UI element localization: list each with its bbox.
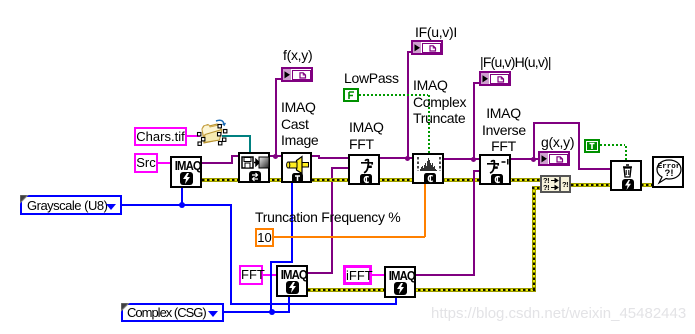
wire: Create3 (iFFT buf) out up to InverseFFT dst input xyxy=(416,274,475,276)
svg-text:?!: ?! xyxy=(665,168,674,179)
boolean constant T xyxy=(584,139,600,153)
string constant iFFT xyxy=(343,265,372,285)
node Merge Errors xyxy=(540,175,571,193)
indicator f(x,y) xyxy=(281,67,313,82)
junction node: truncate-out xyxy=(471,157,476,162)
wire: string Src to IMAQ Create 1 xyxy=(158,162,170,164)
wire xyxy=(424,184,426,237)
wire: image Truncate->InverseFFT->g(x,y) xyxy=(443,158,538,160)
label IMAQ Cast Image xyxy=(281,99,318,149)
wire xyxy=(578,168,611,170)
indicator g(x,y) xyxy=(538,151,570,166)
junction node: fft-out to |F(u,v)| xyxy=(405,156,410,161)
wire: green dotted LowPass to Truncate xyxy=(359,94,429,96)
watermark xyxy=(431,306,686,323)
wire xyxy=(533,122,580,124)
label IMAQ FFT xyxy=(349,119,384,152)
node Simple Error Handler xyxy=(652,156,684,188)
wire: error merge->dispose->handler xyxy=(571,183,653,187)
node IMAQ Cast Image xyxy=(281,152,312,183)
label |F(u,v)H(u,v)| xyxy=(480,54,551,71)
wire xyxy=(473,82,480,84)
node IMAQ Dispose xyxy=(610,160,642,191)
node IMAQ Create (iFFT buf) xyxy=(384,266,416,298)
junction node: grayscale wire xyxy=(179,202,185,208)
wire xyxy=(407,51,412,53)
wire: Create2 (FFT buf) out up to FFT dst input xyxy=(308,272,333,274)
wire xyxy=(291,183,293,262)
wire: string FFT to Create2 xyxy=(262,274,276,276)
string constant Src xyxy=(134,153,158,173)
wire: g(x,y) route up-over to Dispose xyxy=(533,123,535,160)
wire xyxy=(473,170,479,172)
node IMAQ ReadFile xyxy=(238,152,270,183)
enum Grayscale (U8) xyxy=(20,195,122,215)
wire xyxy=(473,170,475,276)
wire xyxy=(270,261,293,263)
wire: Complex enum run xyxy=(224,311,290,313)
junction node: complex wire xyxy=(269,309,275,315)
wire: string iFFT to Create3 xyxy=(371,274,384,276)
string constant Chars.tif xyxy=(134,127,187,146)
wire xyxy=(625,144,627,160)
wire xyxy=(231,156,233,164)
string constant FFT xyxy=(239,265,263,285)
wire xyxy=(578,122,580,169)
label |F(u,v)| xyxy=(415,24,457,41)
wire xyxy=(331,167,348,169)
label IMAQ Inverse FFT xyxy=(482,105,525,155)
wire: image Cast->FFT->Truncate xyxy=(318,157,443,159)
wire: error main run xyxy=(202,178,541,182)
node IMAQ ComplexTruncate xyxy=(412,153,444,184)
junction node: inversefft-out to g(x,y) xyxy=(531,157,536,162)
numeric constant 10 xyxy=(255,228,274,247)
wire xyxy=(532,186,541,190)
node IMAQ Create (FFT buf) xyxy=(276,265,308,297)
wire: error bottom run Create2->Create3->up xyxy=(308,288,536,292)
wire xyxy=(275,78,282,80)
wire: branch up into Create1 bottom xyxy=(181,188,183,205)
label LowPass xyxy=(344,70,399,87)
label Truncation Frequency % xyxy=(255,209,400,226)
wire: image out of Create1 jog xyxy=(202,162,233,164)
wire: branch into Create2 bottom xyxy=(288,297,290,312)
node IMAQ InverseFFT xyxy=(479,154,511,185)
junction node: readfile-out to f(x,y) xyxy=(273,154,278,159)
label f(x,y) xyxy=(283,47,312,64)
node IMAQ FFT xyxy=(348,154,380,185)
indicator |F(u,v)H(u,v)| xyxy=(479,71,511,86)
wire xyxy=(249,135,251,153)
boolean constant F (LowPass) xyxy=(343,88,359,102)
wire: Grayscale bottom run to Create3 type input xyxy=(230,303,397,305)
node IMAQ Create (Src) xyxy=(170,156,202,188)
wire: orange truncation frequency xyxy=(273,236,425,238)
wire: Complex branch up to Cast type input xyxy=(270,261,272,312)
wire: branch up to |F(u,v)H(u,v)| indicator xyxy=(473,82,475,160)
wire: image main run Create1->ReadFile->Cast xyxy=(231,155,320,157)
wire: green dotted T to Dispose xyxy=(600,144,627,146)
enum Complex (CSG) xyxy=(121,303,224,322)
wire xyxy=(428,94,430,153)
wire xyxy=(331,167,333,274)
wire xyxy=(532,186,536,290)
wire xyxy=(395,297,397,304)
wire: path (teal) from convert icon to ReadFile top xyxy=(222,135,250,137)
label IMAQ Complex Truncate xyxy=(413,77,466,127)
wire: string Chars.tif to path-convert xyxy=(187,135,200,137)
wire: Grayscale down left column xyxy=(230,204,232,304)
wire: Grayscale enum run xyxy=(122,204,232,206)
wire: branch up to f(x,y) indicator xyxy=(275,78,277,157)
indicator |F(u,v)| xyxy=(411,40,443,55)
label g(x,y) xyxy=(541,134,574,151)
wire: branch up to |F(u,v)| indicator xyxy=(407,51,409,159)
path convert icon (selected) xyxy=(194,113,230,149)
